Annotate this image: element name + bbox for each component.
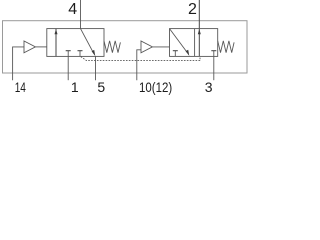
svg-text:4: 4: [68, 1, 77, 18]
svg-text:10(12): 10(12): [139, 79, 172, 95]
svg-text:1: 1: [71, 79, 79, 95]
svg-text:14: 14: [15, 79, 26, 95]
svg-text:5: 5: [97, 79, 105, 95]
svg-text:3: 3: [205, 79, 213, 95]
svg-text:2: 2: [188, 1, 197, 18]
